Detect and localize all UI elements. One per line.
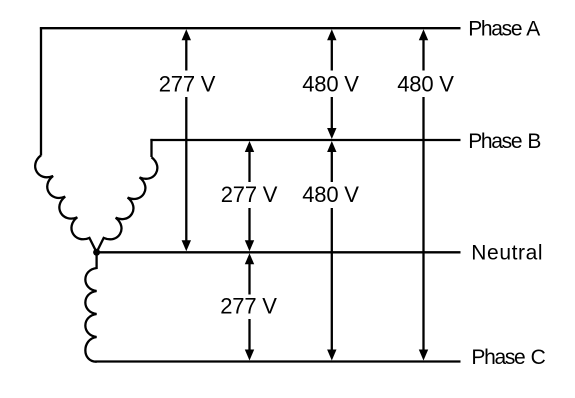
arrow 480V Phase A to Phase C xyxy=(419,29,428,360)
arrow 277V Phase B to Neutral xyxy=(245,141,254,251)
label Neutral xyxy=(471,242,543,265)
svg-text:277 V: 277 V xyxy=(220,294,277,319)
label 277 V (N-C) xyxy=(220,294,277,319)
svg-text:277 V: 277 V xyxy=(221,182,278,207)
svg-text:Neutral: Neutral xyxy=(471,242,543,265)
winding phase C coil xyxy=(85,252,96,361)
svg-text:Phase C: Phase C xyxy=(471,346,545,369)
label Phase C xyxy=(471,346,545,369)
winding phase B coil xyxy=(97,157,158,252)
arrow 277V Neutral to Phase C xyxy=(245,253,254,360)
svg-text:Phase B: Phase B xyxy=(468,130,540,153)
svg-text:480 V: 480 V xyxy=(302,182,359,207)
wire Phase B left drop xyxy=(150,139,152,157)
label 480 V (A-C) xyxy=(397,72,454,97)
label 277 V (B-N) xyxy=(221,182,278,207)
wire Phase A horizontal xyxy=(40,27,461,29)
arrow 480V Phase A to Phase B xyxy=(327,29,336,139)
svg-text:480 V: 480 V xyxy=(397,72,454,97)
label 480 V (A-B) xyxy=(302,72,359,97)
svg-text:277 V: 277 V xyxy=(159,72,216,97)
wire Phase A left drop xyxy=(40,27,42,155)
label Phase B xyxy=(468,130,540,153)
node neutral star point xyxy=(93,249,100,256)
label 480 V (B-C) xyxy=(302,182,359,207)
wire Phase C horizontal xyxy=(96,360,461,362)
wire Neutral horizontal xyxy=(97,251,461,253)
svg-text:480 V: 480 V xyxy=(302,72,359,97)
label 277 V (A-N) xyxy=(159,72,216,97)
label Phase A xyxy=(468,18,540,41)
winding phase A coil xyxy=(35,155,96,252)
arrow 277V Phase A to Neutral xyxy=(182,29,191,251)
arrow 480V Phase B to Phase C xyxy=(327,141,336,361)
wire Phase B horizontal xyxy=(150,139,460,141)
svg-text:Phase A: Phase A xyxy=(468,18,540,41)
